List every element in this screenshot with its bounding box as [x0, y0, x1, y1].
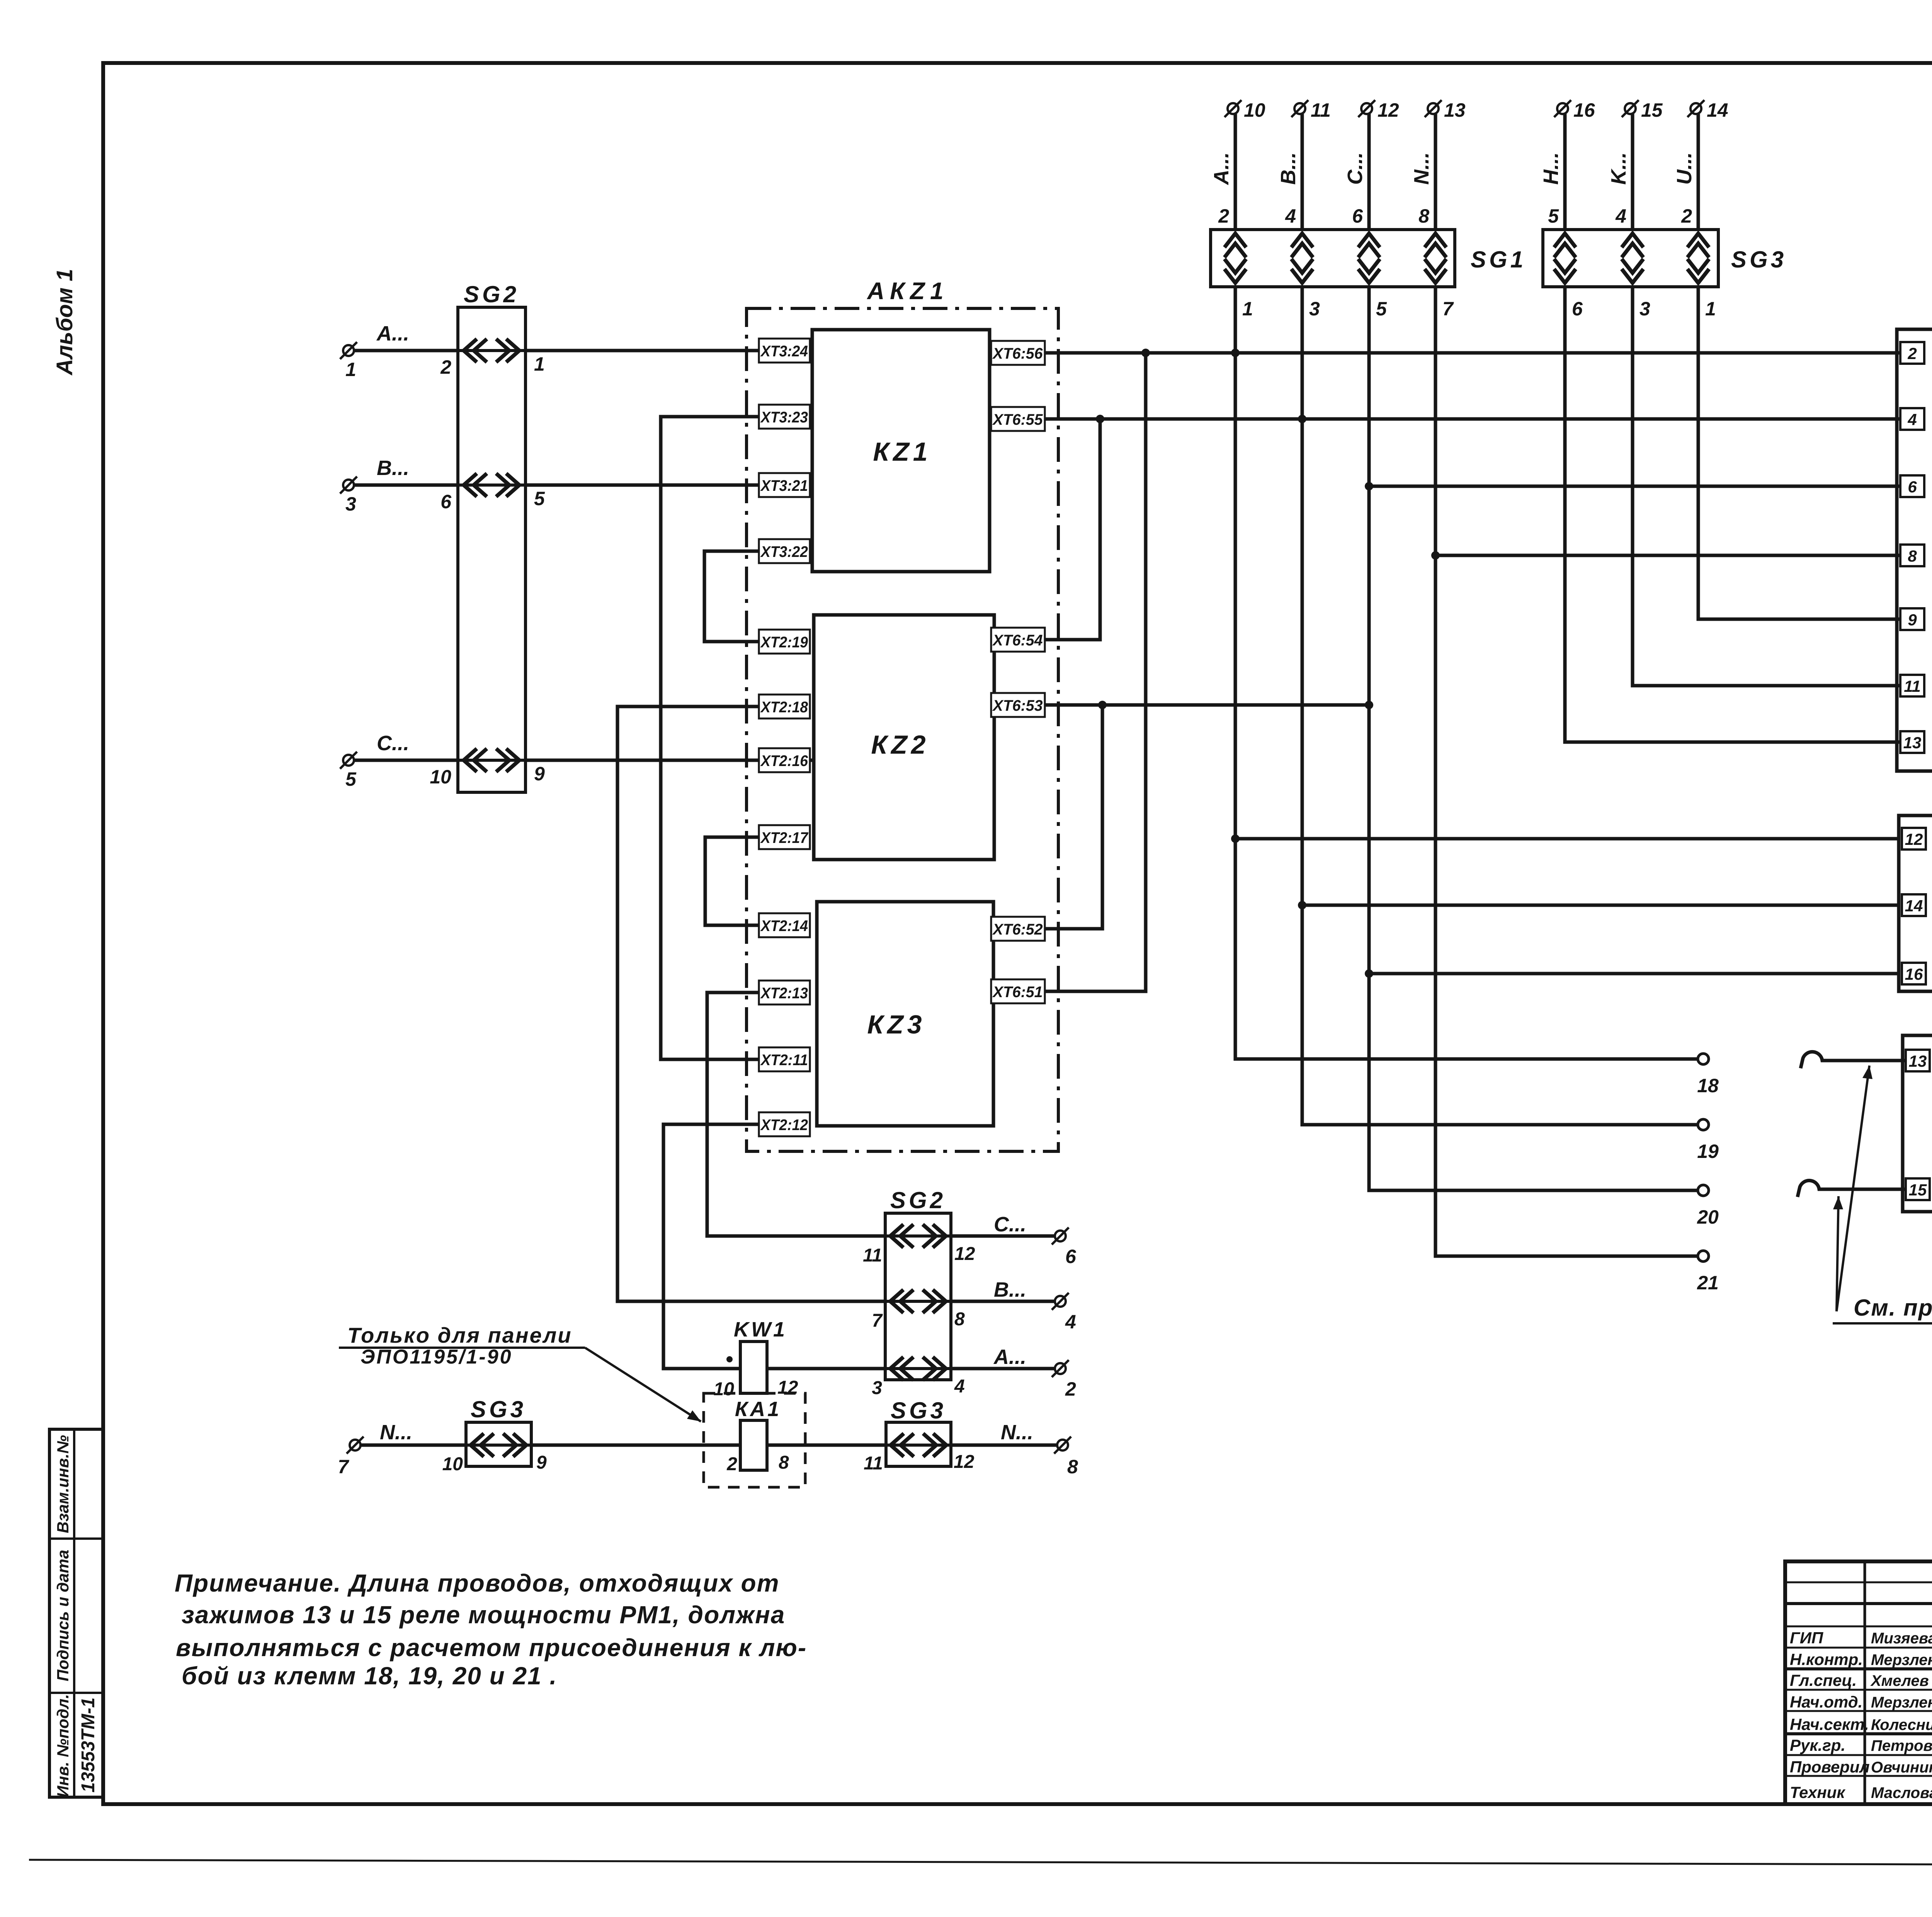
- wire from terminal 12 to connector: [1367, 114, 1371, 230]
- svg-text:8: 8: [954, 1309, 965, 1330]
- output terminal 2 (A...): [1052, 1360, 1076, 1400]
- SG3 pin 4 (top): [1615, 205, 1626, 227]
- SG2 pin 5: [534, 488, 545, 509]
- svg-text:Рук.гр.: Рук.гр.: [1790, 1736, 1845, 1754]
- net label C...: [377, 732, 409, 755]
- label KW1 coil: [734, 1318, 787, 1341]
- SG3 pin 12: [954, 1452, 975, 1472]
- label KZ3: [867, 1010, 925, 1039]
- wire to KW1:15 with hooked end: [1798, 1180, 1906, 1197]
- wire XT2:13 to SG2 bottom pin 11: [707, 993, 885, 1236]
- svg-text:7: 7: [1442, 298, 1454, 320]
- wire phase B branch to AKB1:14: [1302, 904, 1899, 907]
- svg-text:5: 5: [1548, 205, 1559, 227]
- svg-text:1: 1: [345, 359, 356, 380]
- wire phase C down from SG1 pin 5 to terminal 20: [1369, 287, 1698, 1190]
- wire XT6:55 / phase B bus to AKB2:4: [990, 417, 1900, 421]
- wire N down from SG1 pin 7 to terminal 21: [1435, 287, 1698, 1256]
- junction B bus / 54 jumper: [1096, 415, 1104, 423]
- note leader arrow to wire 15: [1833, 1196, 1843, 1311]
- terminal label ХТ6:52: [991, 917, 1045, 941]
- svg-text:Нач.отд.: Нач.отд.: [1790, 1693, 1862, 1711]
- terminal 12 (input C): [1358, 99, 1399, 121]
- svg-text:18: 18: [1697, 1075, 1719, 1096]
- svg-text:2: 2: [1065, 1378, 1076, 1400]
- svg-text:C...: C...: [377, 732, 409, 755]
- SG3 pin 2 (top): [1681, 205, 1692, 227]
- svg-text:Альбом 1: Альбом 1: [52, 269, 77, 376]
- title row Проверил: [1790, 1754, 1932, 1776]
- note leader arrow to wire 13: [1837, 1066, 1872, 1311]
- svg-text:2: 2: [1907, 344, 1917, 363]
- svg-text:КZ1: КZ1: [873, 437, 931, 466]
- svg-text:SG2: SG2: [890, 1187, 946, 1213]
- junction B bus / B line: [1298, 415, 1306, 423]
- svg-text:выполняться с расчетом прис: выполняться с расчетом присоединения к л…: [176, 1634, 807, 1662]
- wire N branch to AKB2:8: [1435, 554, 1900, 557]
- svg-text:КZ2: КZ2: [871, 730, 929, 759]
- svg-text:Техник: Техник: [1790, 1783, 1845, 1801]
- svg-text:3: 3: [1309, 298, 1320, 320]
- label KA1: [735, 1398, 781, 1421]
- SG2 pin 9: [534, 763, 545, 785]
- svg-text:2: 2: [440, 356, 451, 378]
- terminal 18: [1697, 1054, 1719, 1096]
- SG1 pin 5 (bottom): [1376, 298, 1387, 320]
- wire phase C branch to AKB1:16: [1369, 972, 1899, 976]
- margin label Инв.№подл.: [54, 1694, 72, 1797]
- net label N... left: [380, 1421, 412, 1444]
- svg-text:8: 8: [1908, 547, 1917, 565]
- relay coil KA1: [740, 1420, 767, 1470]
- svg-text:14: 14: [1707, 99, 1728, 121]
- input terminal 7 (N): [338, 1437, 364, 1478]
- wire XT3:23 to XT2:11: [661, 417, 759, 1059]
- svg-text:11: 11: [1904, 677, 1921, 695]
- svg-text:4: 4: [954, 1376, 965, 1397]
- svg-text:ХТ6:56: ХТ6:56: [992, 345, 1043, 362]
- svg-text:KW1: KW1: [734, 1318, 787, 1341]
- svg-text:4: 4: [1065, 1311, 1076, 1333]
- title row Н.контр.: [1790, 1647, 1932, 1668]
- SG2 pin 2: [440, 356, 451, 378]
- net label U...: [1673, 152, 1696, 185]
- junction C line / AKB2:6: [1365, 482, 1373, 490]
- net label C...: [994, 1213, 1026, 1236]
- svg-text:11: 11: [864, 1453, 883, 1474]
- svg-text:ГИП: ГИП: [1790, 1629, 1823, 1647]
- svg-text:ХТ2:19: ХТ2:19: [760, 634, 808, 651]
- net label A...: [1210, 152, 1233, 186]
- svg-text:Примечание. Длина проводов,: Примечание. Длина проводов, отходящих от: [175, 1569, 780, 1597]
- svg-text:C...: C...: [994, 1213, 1026, 1236]
- svg-text:Мерзленкова: Мерзленкова: [1871, 1694, 1932, 1711]
- svg-text:7: 7: [338, 1456, 349, 1478]
- svg-text:ЭПО1195/1-90: ЭПО1195/1-90: [361, 1346, 513, 1368]
- SG3 pin 3 (bottom): [1639, 298, 1650, 320]
- svg-text:7: 7: [872, 1311, 883, 1331]
- connector SG3 (bottom right): [886, 1422, 951, 1466]
- svg-text:13: 13: [1903, 734, 1922, 752]
- margin number 13553ТМ-1: [78, 1697, 99, 1793]
- svg-text:10: 10: [430, 766, 451, 788]
- svg-text:ХТ3:22: ХТ3:22: [760, 543, 808, 560]
- SG1 pin 1 (bottom): [1242, 298, 1253, 320]
- terminal label ХТ2:12: [759, 1112, 810, 1136]
- wire from terminal 13 to connector: [1434, 114, 1437, 230]
- svg-text:A...: A...: [993, 1345, 1026, 1369]
- wire phase A down from SG1 pin 1 to terminal 18: [1235, 287, 1698, 1059]
- net label A...: [376, 322, 409, 345]
- title row Нач.сект.: [1790, 1712, 1932, 1733]
- wire XT2:18 to SG2 bottom pin 7: [617, 707, 885, 1301]
- KW1 polarity dot: [726, 1356, 733, 1362]
- label AKZ1: [866, 278, 949, 305]
- wire U from SG3 pin 1 to AKB2:9: [1698, 287, 1900, 619]
- terminal label ХТ6:55: [991, 407, 1045, 431]
- terminal label ХТ2:11: [759, 1047, 810, 1071]
- svg-text:21: 21: [1697, 1272, 1719, 1294]
- svg-text:12: 12: [954, 1244, 975, 1264]
- terminal 16 (input H): [1554, 99, 1595, 121]
- svg-text:2: 2: [1218, 205, 1229, 227]
- wire from terminal 14 to connector: [1697, 114, 1700, 230]
- svg-text:АКZ1: АКZ1: [866, 278, 949, 305]
- svg-text:6: 6: [1065, 1246, 1077, 1267]
- SG1 pin 7 (bottom): [1442, 298, 1454, 320]
- label KZ2: [871, 730, 929, 759]
- svg-text:Петрова: Петрова: [1871, 1737, 1932, 1754]
- device AKB1: [1899, 815, 1932, 991]
- svg-text:Подпись и дата: Подпись и дата: [54, 1550, 72, 1681]
- SG1 pin 2 (top): [1218, 205, 1229, 227]
- relay KZ2: [814, 615, 994, 860]
- terminal label ХТ3:23: [759, 405, 810, 429]
- svg-text:13553ТМ-1: 13553ТМ-1: [78, 1697, 99, 1793]
- terminal label ХТ2:14: [759, 913, 810, 937]
- connector SG1: [1211, 230, 1455, 287]
- margin label Взам.инв.№: [54, 1435, 72, 1533]
- svg-text:ХТ3:23: ХТ3:23: [760, 409, 808, 426]
- label SG2: [464, 281, 519, 307]
- svg-text:8: 8: [1418, 205, 1429, 227]
- wire from terminal 10 to connector: [1234, 114, 1237, 230]
- svg-text:Маслова: Маслова: [1871, 1784, 1932, 1801]
- svg-text:ХТ6:53: ХТ6:53: [992, 697, 1043, 714]
- svg-text:A...: A...: [376, 322, 409, 345]
- svg-text:ХТ2:17: ХТ2:17: [760, 829, 808, 846]
- SG3 pin 10: [442, 1454, 463, 1474]
- svg-text:B...: B...: [994, 1278, 1026, 1301]
- SG1 pin 8 (top): [1418, 205, 1429, 227]
- svg-text:8: 8: [1067, 1456, 1078, 1478]
- svg-text:13: 13: [1909, 1052, 1927, 1070]
- svg-text:16: 16: [1573, 99, 1595, 121]
- wire phase B... input to AKZ1: [354, 484, 812, 487]
- album label Альбом 1: [52, 269, 77, 376]
- terminal label ХТ2:18: [759, 695, 810, 718]
- terminal 20: [1697, 1185, 1719, 1228]
- svg-text:1: 1: [1242, 298, 1253, 320]
- wire SG2 output A...: [951, 1367, 1055, 1371]
- current relay KA1 (dashed option box): [704, 1393, 805, 1487]
- svg-text:16: 16: [1905, 965, 1923, 983]
- SG3 pin 5 (top): [1548, 205, 1559, 227]
- terminal label ХТ6:53: [991, 693, 1045, 717]
- connector SG3 (bottom left): [466, 1422, 531, 1466]
- title block grid: [1785, 1561, 1932, 1804]
- svg-text:9: 9: [534, 763, 545, 785]
- svg-text:ХТ6:54: ХТ6:54: [992, 632, 1043, 649]
- svg-text:Мерзленкова: Мерзленкова: [1871, 1651, 1932, 1668]
- svg-text:8: 8: [779, 1452, 789, 1473]
- svg-text:U...: U...: [1673, 152, 1696, 185]
- svg-text:ХТ2:13: ХТ2:13: [760, 985, 808, 1002]
- svg-text:Н.контр.: Н.контр.: [1790, 1650, 1863, 1668]
- title row Техник: [1790, 1780, 1932, 1801]
- terminal label ХТ2:17: [759, 825, 810, 849]
- svg-text:SG3: SG3: [1731, 247, 1787, 272]
- terminal 19: [1697, 1119, 1719, 1162]
- terminal 11 (input B): [1291, 99, 1331, 121]
- svg-text:См. примечание 1: См. примечание 1: [1854, 1295, 1932, 1321]
- net label A...: [993, 1345, 1026, 1369]
- terminal label ХТ3:24: [759, 339, 810, 363]
- svg-text:6: 6: [1908, 478, 1917, 496]
- svg-text:2: 2: [1681, 205, 1692, 227]
- output terminal 8 (N): [1054, 1437, 1078, 1478]
- svg-text:6: 6: [1352, 205, 1363, 227]
- svg-text:SG1: SG1: [1471, 247, 1526, 272]
- svg-text:Проверил: Проверил: [1790, 1758, 1870, 1776]
- KW1 pin 12: [777, 1377, 798, 1398]
- terminal label ХТ2:16: [759, 748, 810, 772]
- SG2 pin 10: [430, 766, 451, 788]
- svg-text:5: 5: [1376, 298, 1387, 320]
- net label B...: [1277, 152, 1300, 185]
- svg-text:4: 4: [1285, 205, 1296, 227]
- input terminal 1 (A...): [340, 342, 357, 380]
- label SG1: [1471, 247, 1526, 272]
- svg-text:12: 12: [1905, 830, 1923, 848]
- svg-text:3: 3: [1639, 298, 1650, 320]
- terminal label ХТ6:51: [991, 979, 1045, 1003]
- left margin stamp strip: [49, 1429, 103, 1797]
- svg-text:N...: N...: [380, 1421, 412, 1444]
- svg-text:9: 9: [536, 1452, 547, 1473]
- connector SG2 (top): [458, 307, 526, 792]
- svg-text:10: 10: [714, 1379, 735, 1399]
- terminal label ХТ2:13: [759, 981, 810, 1004]
- device boundary AKZ1: [747, 308, 1058, 1151]
- wire from terminal 16 to connector: [1563, 114, 1567, 230]
- svg-text:15: 15: [1641, 99, 1663, 121]
- wire phase B down from SG1 pin 3 to terminal 19: [1302, 287, 1698, 1125]
- label KZ1: [873, 437, 931, 466]
- wire phase A... input to AKZ1: [354, 349, 812, 352]
- terminal label ХТ3:22: [759, 539, 810, 563]
- terminal label ХТ6:54: [991, 628, 1045, 652]
- svg-text:ХТ6:51: ХТ6:51: [992, 984, 1043, 1001]
- wire to KW1:13 with hooked end: [1801, 1052, 1906, 1068]
- net label H...: [1539, 152, 1563, 185]
- wire N input: [361, 1444, 886, 1447]
- terminal 15 (input K): [1622, 99, 1663, 121]
- wire K from SG3 pin 3 to AKB2:11: [1633, 287, 1900, 686]
- wire SG2 output B...: [951, 1300, 1055, 1303]
- wire XT6:51 jumper to XT6:56: [993, 353, 1146, 991]
- wire SG2 output C...: [951, 1234, 1055, 1238]
- junction N line / AKB2:8: [1431, 551, 1440, 560]
- wire XT6:54 jumper to XT6:55: [994, 419, 1100, 640]
- junction B line / AKB1:14: [1298, 901, 1306, 909]
- svg-text:11: 11: [863, 1245, 882, 1266]
- net label B...: [994, 1278, 1026, 1301]
- junction 53 / C line: [1365, 701, 1373, 709]
- terminal 10 (input A): [1225, 99, 1265, 121]
- wire XT6:53 to phase C bus: [994, 703, 1369, 707]
- output terminal 6 (C...): [1052, 1227, 1077, 1267]
- net label B...: [377, 456, 409, 480]
- relay KZ3: [817, 902, 993, 1126]
- net label C...: [1344, 152, 1367, 185]
- note text: [175, 1569, 807, 1690]
- svg-text:C...: C...: [1344, 152, 1367, 185]
- SG2 pin 1: [534, 353, 545, 375]
- connector SG2 (bottom): [885, 1213, 951, 1380]
- relay coil KW1 (bottom): [740, 1342, 767, 1393]
- svg-text:20: 20: [1697, 1206, 1719, 1228]
- svg-text:ХТ2:11: ХТ2:11: [760, 1052, 808, 1069]
- svg-text:Нач.сект.: Нач.сект.: [1790, 1715, 1869, 1733]
- svg-text:10: 10: [442, 1454, 463, 1474]
- svg-text:B...: B...: [1277, 152, 1300, 185]
- svg-text:H...: H...: [1539, 152, 1563, 185]
- option note: Только для панели: [339, 1323, 585, 1368]
- svg-text:ХТ6:55: ХТ6:55: [992, 411, 1043, 428]
- SG1 pin 3 (bottom): [1309, 298, 1320, 320]
- SG3 pin 1 (bottom): [1705, 298, 1716, 320]
- SG2 bottom pin 8: [954, 1309, 965, 1330]
- svg-text:SG3: SG3: [471, 1396, 526, 1422]
- junction A bus / 51 jumper: [1141, 349, 1150, 357]
- title row Гл.спец.: [1790, 1668, 1932, 1689]
- svg-text:Хмелев: Хмелев: [1870, 1672, 1929, 1689]
- svg-text:3: 3: [872, 1378, 882, 1398]
- svg-text:1: 1: [534, 353, 545, 375]
- svg-text:9: 9: [1908, 611, 1917, 629]
- svg-text:6: 6: [440, 491, 452, 512]
- wire XT3:22 to XT2:19: [704, 551, 759, 642]
- SG2 bottom pin 11: [863, 1245, 882, 1266]
- junction C line / AKB1:16: [1365, 969, 1373, 978]
- KW1 pin 10: [714, 1379, 735, 1399]
- svg-text:ХТ3:21: ХТ3:21: [760, 477, 808, 494]
- svg-text:12: 12: [954, 1452, 975, 1472]
- svg-text:2: 2: [726, 1454, 737, 1474]
- svg-text:K...: K...: [1607, 152, 1630, 185]
- svg-text:зажимов 13 и 15 реле мощно: зажимов 13 и 15 реле мощности РМ1, должн…: [182, 1601, 785, 1629]
- SG2 bottom pin 12: [954, 1244, 975, 1264]
- net label K...: [1607, 152, 1630, 185]
- SG2 bottom pin 7: [872, 1311, 883, 1331]
- wire H from SG3 pin 6 to AKB2:13: [1565, 287, 1900, 742]
- svg-text:ХТ2:14: ХТ2:14: [760, 918, 808, 935]
- SG3 pin 9: [536, 1452, 547, 1473]
- svg-text:19: 19: [1697, 1141, 1719, 1162]
- terminal 13 (input N): [1425, 99, 1466, 121]
- svg-text:Мизяева: Мизяева: [1871, 1630, 1932, 1647]
- wire XT2:17 to XT2:14: [705, 837, 759, 925]
- input terminal 3 (B...): [340, 477, 357, 515]
- svg-text:6: 6: [1572, 298, 1583, 320]
- margin label Подпись и дата: [54, 1550, 72, 1681]
- svg-text:SG2: SG2: [464, 281, 519, 307]
- SG1 pin 4 (top): [1285, 205, 1296, 227]
- KA1 pin 8: [779, 1452, 789, 1473]
- svg-text:ХТ2:18: ХТ2:18: [760, 699, 808, 716]
- svg-text:Колесникова: Колесникова: [1871, 1716, 1932, 1733]
- svg-text:ХТ2:16: ХТ2:16: [760, 752, 808, 770]
- terminal label ХТ2:19: [759, 630, 810, 654]
- svg-text:12: 12: [777, 1377, 798, 1398]
- net label N...: [1410, 152, 1433, 185]
- svg-text:5: 5: [534, 488, 545, 509]
- output terminal 4 (B...): [1052, 1293, 1076, 1333]
- device KW1 (power relay contacts): [1903, 1035, 1932, 1212]
- SG2 pin 6: [440, 491, 452, 512]
- svg-text:1: 1: [1705, 298, 1716, 320]
- title row Рук.гр.: [1790, 1733, 1932, 1754]
- wire from terminal 11 to connector: [1301, 114, 1304, 230]
- svg-text:Инв. №подл.: Инв. №подл.: [54, 1694, 72, 1797]
- input terminal 5 (C...): [340, 752, 357, 790]
- svg-text:бой из клемм 18, 19, 20: бой из клемм 18, 19, 20 и 21 .: [182, 1662, 557, 1690]
- device AKB2: [1897, 329, 1932, 771]
- junction 53 / 52 jumper: [1098, 701, 1107, 709]
- label SG2 bottom: [890, 1187, 946, 1213]
- svg-text:14: 14: [1905, 897, 1923, 915]
- svg-text:Только для панели: Только для панели: [347, 1323, 572, 1347]
- svg-text:5: 5: [345, 768, 357, 790]
- wire phase C... input to AKZ1: [354, 759, 812, 762]
- terminal label ХТ3:21: [759, 473, 810, 497]
- svg-text:ХТ2:12: ХТ2:12: [760, 1117, 808, 1134]
- SG2 bottom pin 3: [872, 1378, 882, 1398]
- svg-text:КZ3: КZ3: [867, 1010, 925, 1039]
- svg-text:B...: B...: [377, 456, 409, 480]
- terminal 14 (input U): [1687, 99, 1728, 121]
- wire XT2:12 via KW1 coil to SG2 bottom pin 3: [663, 1124, 885, 1369]
- svg-text:12: 12: [1378, 99, 1399, 121]
- svg-text:4: 4: [1907, 410, 1917, 429]
- terminal label ХТ6:56: [991, 341, 1045, 365]
- svg-text:10: 10: [1244, 99, 1265, 121]
- svg-text:15: 15: [1909, 1181, 1927, 1199]
- svg-text:Взам.инв.№: Взам.инв.№: [54, 1435, 72, 1533]
- title row ГИП: [1790, 1625, 1932, 1647]
- svg-text:N...: N...: [1410, 152, 1433, 185]
- paper bottom edge line: [29, 1860, 1932, 1866]
- wire phase A branch to AKB1:12: [1235, 837, 1899, 841]
- label SG3: [1731, 247, 1787, 272]
- note reference text: [1833, 1295, 1932, 1323]
- SG3 pin 11: [864, 1453, 883, 1474]
- label SG3 bottom right: [891, 1398, 946, 1423]
- junction A bus / A line: [1231, 349, 1240, 357]
- wire from terminal 15 to connector: [1631, 114, 1634, 230]
- SG3 pin 6 (bottom): [1572, 298, 1583, 320]
